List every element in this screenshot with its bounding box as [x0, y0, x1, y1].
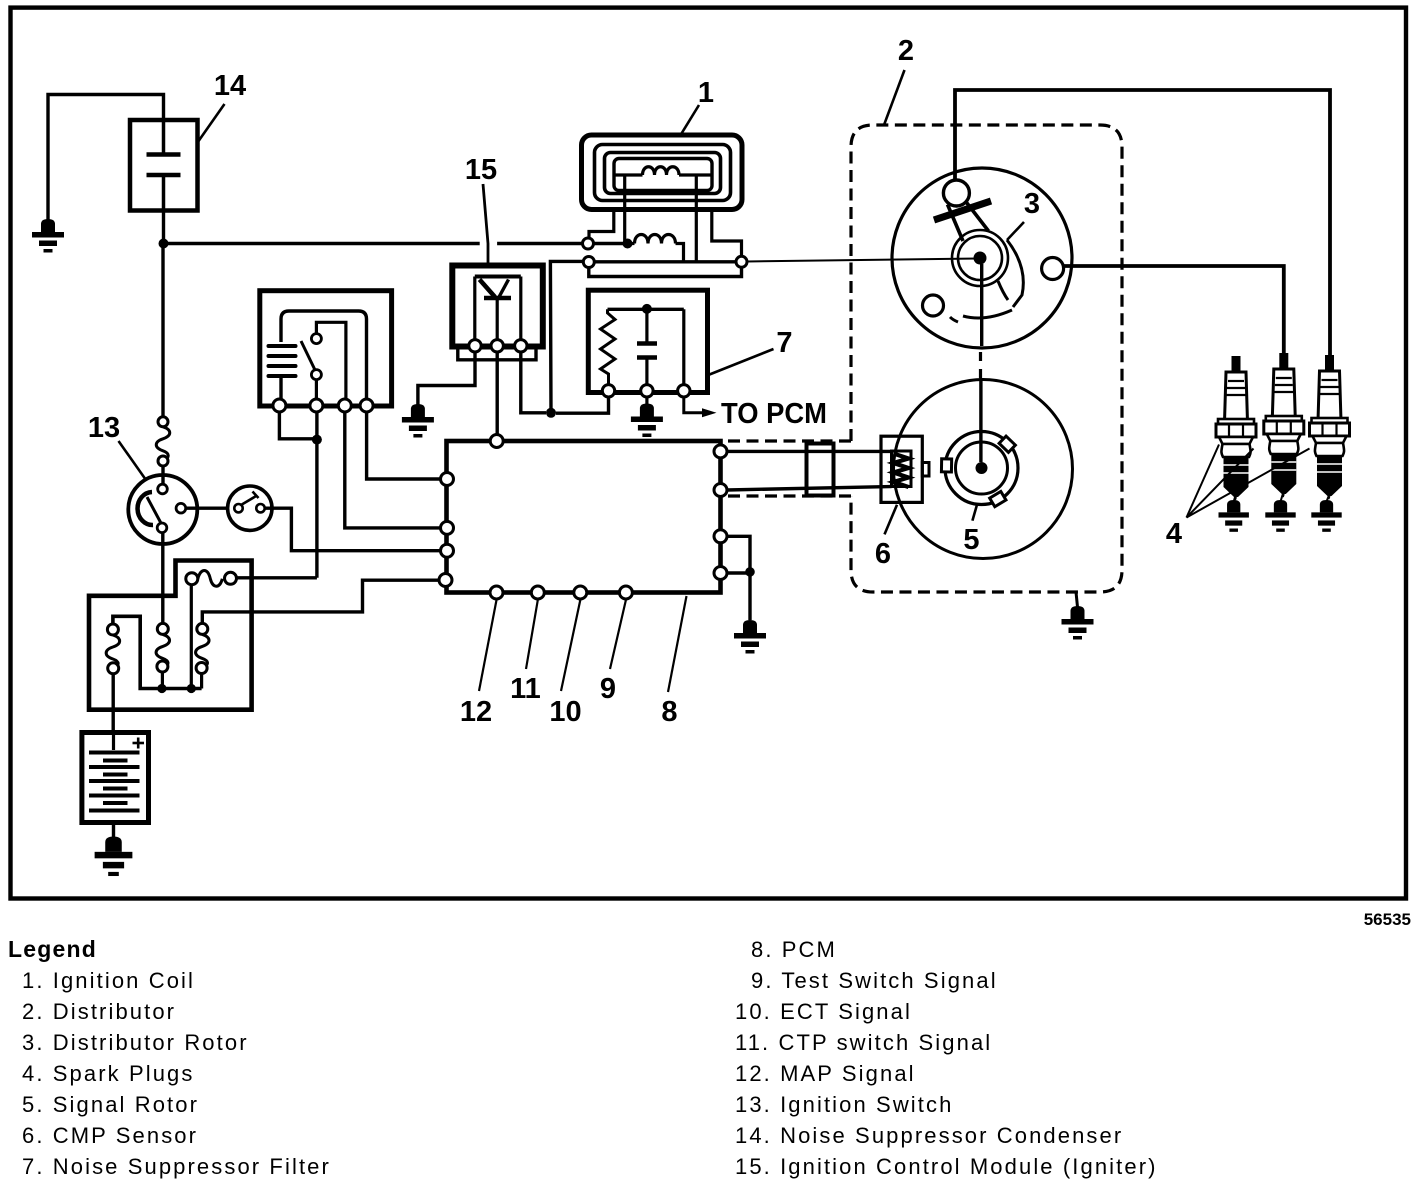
svg-text:6: 6: [875, 538, 891, 570]
wire test connector to PCM pin L3: [265, 508, 443, 551]
node circle coil lower-left: [583, 257, 594, 268]
wire igniter pin2 to PCM top pin: [496, 352, 499, 434]
ground (left of C14): [32, 219, 64, 253]
ground (plug3): [1311, 500, 1341, 532]
wire to switch: [161, 466, 164, 485]
coil secondary winding: [614, 167, 712, 175]
filter right branch: [682, 309, 685, 385]
ground (plug2): [1265, 500, 1295, 532]
ignition switch SW13: [128, 475, 197, 544]
leader line 13: [119, 441, 147, 480]
connector circle: [158, 417, 168, 427]
test switch connector: [228, 486, 272, 530]
wire wavy coil left down to bus: [190, 585, 193, 689]
wire bus y=243 from junction to ignition coil: [164, 242, 624, 245]
relay pins: [273, 399, 373, 412]
connector circle: [158, 456, 168, 466]
rotor terminal circle: [943, 180, 969, 206]
wire relay pin3 to PCM pin L2: [345, 412, 443, 528]
wire from C14 top to ground: [48, 95, 164, 221]
wire wavy coil right to relay junction riser: [237, 576, 317, 579]
PCM pins right: [714, 445, 727, 580]
connector bottom bus: [113, 616, 202, 688]
spark plug 2: [1264, 353, 1304, 497]
svg-text:7: 7: [776, 327, 792, 359]
wire ignition switch feed (vertical x=163): [161, 244, 164, 418]
svg-text:14: 14: [214, 70, 246, 102]
signal rotor circle (lower distributor): [894, 380, 1073, 559]
signal rotor lobed wheel: [941, 432, 1018, 507]
svg-text:15. Ignition Control Module (I: 15. Ignition Control Module (Igniter): [735, 1154, 1158, 1179]
coil case drop left outer: [589, 210, 614, 239]
border frame: [11, 8, 1407, 899]
rotor center rings: [952, 230, 1008, 286]
igniter pins: [469, 340, 527, 352]
wire distributor housing to ground: [1076, 592, 1078, 607]
svg-text:11. CTP switch Signal: 11. CTP switch Signal: [735, 1030, 992, 1055]
wire igniter pin3 to node: [521, 352, 546, 413]
svg-text:2. Distributor: 2. Distributor: [22, 999, 176, 1024]
wire igniter pin1 to ground: [418, 352, 475, 405]
svg-text:1. Ignition Coil: 1. Ignition Coil: [22, 968, 195, 993]
filter capacitor: [637, 309, 657, 385]
wire filter pin2 to ground: [645, 397, 648, 404]
thin wire coil to rotor center: [747, 259, 978, 262]
svg-text:13. Ignition Switch: 13. Ignition Switch: [735, 1092, 953, 1117]
CMP harness connector block: [807, 444, 834, 496]
ground (distributor): [1062, 606, 1094, 640]
wire PCM pin R2 to CMP: [727, 487, 892, 491]
relay inner circuit path: [281, 311, 367, 400]
leader line 2: [884, 70, 905, 125]
leader line 9: [610, 600, 626, 669]
wire PCM pins R3 R4 join: [727, 536, 750, 620]
svg-text:4. Spark Plugs: 4. Spark Plugs: [22, 1061, 194, 1086]
junction dot A: [159, 239, 169, 249]
leader line 10: [561, 600, 580, 691]
rotor shaft: [981, 264, 982, 462]
relay box: [260, 291, 392, 406]
svg-text:10: 10: [549, 696, 581, 728]
svg-text:9: 9: [600, 673, 616, 705]
node circle (coil terminal left upper): [583, 238, 594, 249]
svg-text:3: 3: [1024, 188, 1040, 220]
wire C14 bottom to junction: [162, 211, 165, 244]
junction dot relay riser: [312, 435, 322, 445]
igniter transistor symbol: [475, 277, 521, 341]
filter top bus: [608, 308, 684, 311]
capacitor C14 (noise suppressor condenser): [130, 120, 198, 211]
wire coil A bottom to battery: [111, 674, 114, 733]
wire coil C top to PCM pin L4: [202, 580, 440, 623]
wire switch bottom to connector coil B: [161, 533, 164, 624]
svg-text:10. ECT Signal: 10. ECT Signal: [735, 999, 912, 1024]
wire plug3 tip to ground: [1327, 496, 1329, 501]
ground (battery): [95, 837, 133, 877]
ground (PCM right): [734, 620, 766, 654]
leader line 8: [668, 596, 687, 692]
wire filter pin1 to node B: [556, 397, 609, 413]
relay switch: [301, 322, 346, 400]
junction dot node B: [546, 408, 556, 418]
distributor dashed housing: [722, 125, 1122, 592]
relay coil: [269, 346, 296, 376]
svg-text:15: 15: [465, 154, 497, 186]
svg-text:3. Distributor Rotor: 3. Distributor Rotor: [22, 1030, 249, 1055]
distributor cap circle: [892, 168, 1072, 348]
coil case drop right outer: [712, 210, 742, 257]
wire battery to ground: [112, 823, 115, 839]
leader line 12: [479, 600, 497, 691]
svg-text:Legend: Legend: [8, 936, 97, 962]
svg-text:1: 1: [698, 77, 714, 109]
arrow head TO PCM: [702, 408, 717, 417]
wire rotor terminal to plug 3: [955, 90, 1330, 355]
filter resistor: [601, 309, 616, 385]
wavy coil in connector top: [186, 570, 237, 586]
connector box (notched): [89, 561, 252, 710]
svg-text:5: 5: [963, 524, 979, 556]
svg-text:4: 4: [1166, 518, 1182, 550]
wire relay pin1+2 to riser: [279, 412, 317, 578]
PCM box: [447, 441, 721, 593]
wire switch to test connector: [186, 507, 229, 510]
rotor neck: [948, 203, 989, 242]
svg-text:TO PCM: TO PCM: [721, 398, 827, 430]
coil A in connector: [106, 624, 120, 674]
junction dot filter: [642, 304, 652, 314]
leader line 14: [198, 104, 225, 143]
battery B1: [82, 733, 149, 823]
igniter connector strip: [458, 348, 536, 360]
svg-text:14. Noise Suppressor Condenser: 14. Noise Suppressor Condenser: [735, 1123, 1123, 1148]
svg-text:12. MAP Signal: 12. MAP Signal: [735, 1061, 916, 1086]
ground (plug1): [1219, 500, 1249, 532]
leader line 3: [1007, 222, 1024, 240]
svg-text:8. PCM: 8. PCM: [751, 937, 837, 962]
wire filter pin3 to PCM arrow: [684, 397, 702, 413]
coil C in connector: [196, 623, 210, 688]
ignition coil T1 nested case: [582, 135, 743, 210]
junction dot bus B: [157, 684, 166, 693]
leader lines 4: [1187, 445, 1310, 518]
PCM pins top: [490, 435, 503, 448]
PCM pins left: [439, 473, 454, 587]
leader line 11: [526, 600, 538, 669]
rotor sweep arc: [950, 310, 1012, 322]
leader line 15: [483, 184, 488, 265]
coil lower return loop: [589, 267, 742, 276]
node circle coil lower-right: [736, 256, 747, 267]
wire plug2 tip to ground: [1281, 494, 1283, 501]
filter pins: [602, 385, 690, 397]
svg-text:11: 11: [510, 673, 541, 705]
coil lower bus: [594, 260, 736, 263]
rotor bar: [934, 201, 991, 220]
CMP sensor box: [881, 436, 929, 502]
junction dot coil primary left: [623, 239, 633, 249]
noise filter Z7 box: [588, 290, 707, 392]
coil case drop left inner: [623, 175, 626, 244]
svg-text:6. CMP Sensor: 6. CMP Sensor: [22, 1123, 198, 1148]
svg-text:5. Signal Rotor: 5. Signal Rotor: [22, 1092, 199, 1117]
cap contact right: [1042, 258, 1064, 280]
wire node B up to coil primary terminal: [550, 261, 583, 412]
wire relay pin4 to PCM pin L1: [367, 412, 443, 479]
leader line 6: [885, 505, 898, 535]
svg-text:7. Noise Suppressor Filter: 7. Noise Suppressor Filter: [22, 1154, 331, 1179]
svg-text:8: 8: [661, 696, 677, 728]
spark plug 3: [1310, 355, 1350, 499]
junction dot R34: [745, 567, 755, 577]
igniter module U15 box: [452, 266, 543, 347]
wire PCM pin R1 to CMP: [727, 450, 892, 453]
wire cap right contact to plug 2: [1064, 266, 1284, 353]
coil case drop right inner: [695, 175, 698, 262]
svg-text:13: 13: [88, 412, 120, 444]
harness squiggle: [156, 427, 170, 461]
rotor arm: [998, 240, 1023, 307]
leader line 7: [710, 349, 774, 375]
coil primary winding: [628, 235, 684, 262]
junction dot bus C: [187, 684, 196, 693]
svg-text:9. Test Switch Signal: 9. Test Switch Signal: [751, 968, 998, 993]
ground (filter): [631, 404, 663, 438]
leader line 1: [682, 105, 700, 134]
ground (igniter): [402, 404, 434, 438]
wire plug1 tip to ground: [1234, 497, 1235, 501]
svg-text:56535: 56535: [1364, 910, 1411, 929]
svg-text:12: 12: [460, 696, 492, 728]
coil B in connector: [156, 623, 170, 688]
PCM pins bottom: [490, 586, 632, 599]
leader line 5: [972, 505, 977, 521]
spark plug 1: [1216, 356, 1256, 500]
svg-text:2: 2: [898, 35, 914, 67]
cap contact lower-left: [923, 295, 944, 316]
